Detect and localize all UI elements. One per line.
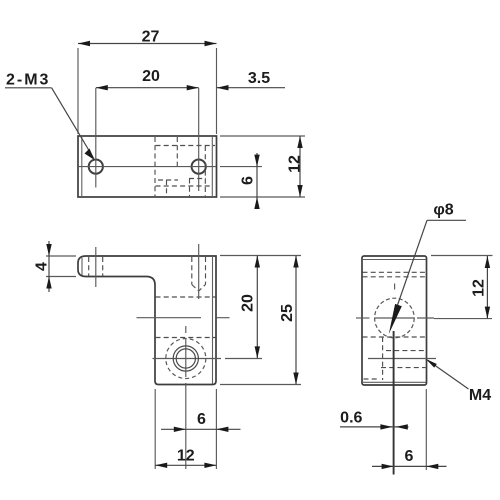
svg-text:6: 6 xyxy=(197,411,206,428)
svg-text:12: 12 xyxy=(287,155,304,173)
svg-text:2-M3: 2-M3 xyxy=(6,72,50,89)
svg-text:25: 25 xyxy=(279,304,296,322)
svg-text:20: 20 xyxy=(142,68,160,85)
svg-text:6: 6 xyxy=(240,176,257,185)
svg-text:3.5: 3.5 xyxy=(248,70,270,87)
svg-text:4: 4 xyxy=(34,262,51,271)
svg-text:φ8: φ8 xyxy=(433,202,453,219)
svg-text:M4: M4 xyxy=(469,387,491,404)
svg-text:27: 27 xyxy=(142,29,160,46)
svg-text:12: 12 xyxy=(177,448,195,465)
svg-text:20: 20 xyxy=(240,294,257,312)
svg-text:0.6: 0.6 xyxy=(340,410,362,427)
svg-text:12: 12 xyxy=(471,279,488,297)
svg-text:6: 6 xyxy=(405,448,414,465)
